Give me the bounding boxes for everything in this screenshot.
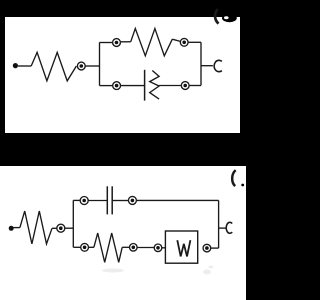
wire input stub	[18, 65, 31, 67]
label (a fragment top right	[215, 9, 237, 24]
node dot (input terminal)	[13, 63, 18, 68]
capacitor straight plate	[144, 70, 146, 101]
resistor R1 (series input)	[31, 52, 76, 81]
terminal C (bottom schematic)	[226, 222, 232, 233]
wire bottom branch left	[73, 246, 80, 248]
wattmeter W box	[165, 231, 197, 263]
wire resistor to circle	[122, 246, 129, 248]
faint print smudges	[102, 266, 214, 275]
white panel bottom (schematic b)	[0, 166, 246, 300]
connector circle cap left	[80, 197, 88, 205]
wire capacitor to circle	[113, 200, 129, 202]
connector circle R4 left	[81, 243, 89, 251]
connector circle top branch left	[113, 39, 121, 47]
wire top branch left	[100, 42, 113, 44]
wire W to right vertical	[211, 247, 219, 249]
wire bottom branch left	[100, 85, 113, 87]
wire bottom branch right	[189, 85, 201, 87]
terminal C (top schematic)	[214, 60, 222, 71]
nonlinear element zigzag plate	[150, 71, 159, 100]
connector circle bottom branch right	[181, 82, 189, 90]
connector circle top branch right	[172, 38, 188, 46]
wire right vertical of parallel block	[200, 42, 202, 85]
white panel top (schematic a)	[5, 17, 240, 133]
node A connector circle	[77, 62, 85, 70]
wire node A to parallel block	[85, 65, 100, 67]
wire top branch right	[188, 41, 201, 43]
resistor R3 (series input)	[20, 211, 52, 244]
wire to capacitor	[88, 200, 107, 202]
wire node B to parallel block	[65, 227, 74, 229]
wire top branch left	[73, 199, 80, 201]
wire zigzag to right circle	[159, 85, 181, 87]
wire input stub	[13, 227, 20, 229]
resistor R2 (top branch)	[121, 29, 173, 56]
resistor R4 (bottom branch)	[94, 233, 122, 262]
wire top branch to right vertical	[136, 199, 218, 201]
connector circle cap right	[128, 196, 136, 204]
wire circle to resistor	[89, 246, 94, 248]
wire output tap	[201, 65, 213, 67]
wire output tap	[219, 227, 227, 229]
connector circle bottom branch left	[113, 82, 121, 90]
connector circle R4 right	[130, 244, 138, 252]
wire between circles	[137, 247, 154, 249]
label (b fragment top right	[232, 170, 244, 186]
capacitor C1 left plate	[106, 186, 108, 214]
connector circle W left	[154, 244, 162, 252]
wire to wattmeter	[162, 247, 166, 249]
node dot (input terminal)	[9, 226, 14, 231]
connector circle W right	[203, 244, 211, 252]
capacitor C1 right plate	[111, 186, 113, 214]
wire right vertical	[218, 200, 220, 248]
wire left vertical of parallel block	[72, 200, 74, 247]
wire left vertical of parallel block	[99, 42, 101, 85]
connector circle node B	[57, 224, 65, 232]
wire resistor to node circle	[52, 227, 57, 229]
wire to capacitor plate	[121, 85, 145, 87]
